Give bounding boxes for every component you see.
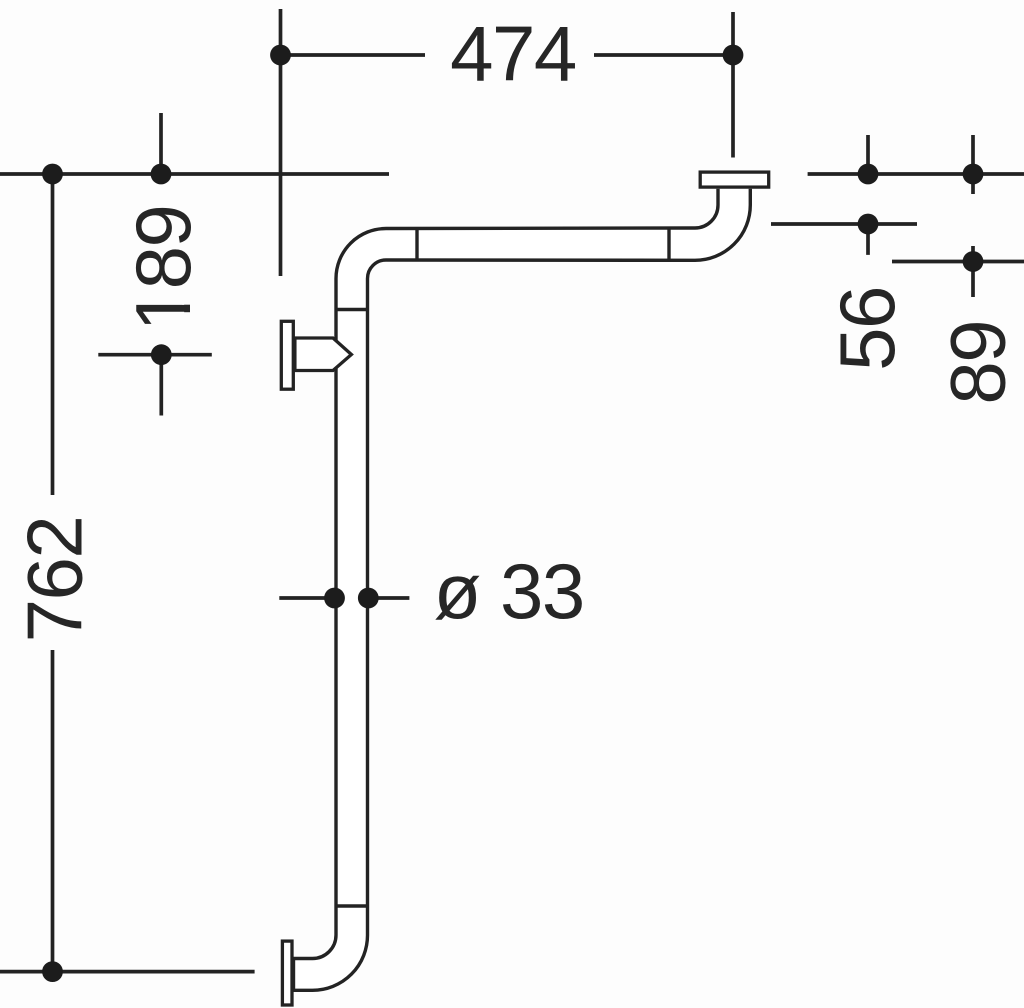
svg-text:89: 89	[934, 321, 1022, 405]
svg-text:474: 474	[450, 10, 576, 98]
svg-text:762: 762	[11, 517, 99, 643]
svg-text:189: 189	[119, 206, 207, 332]
svg-text:56: 56	[823, 287, 911, 371]
svg-text:ø 33: ø 33	[434, 547, 584, 635]
